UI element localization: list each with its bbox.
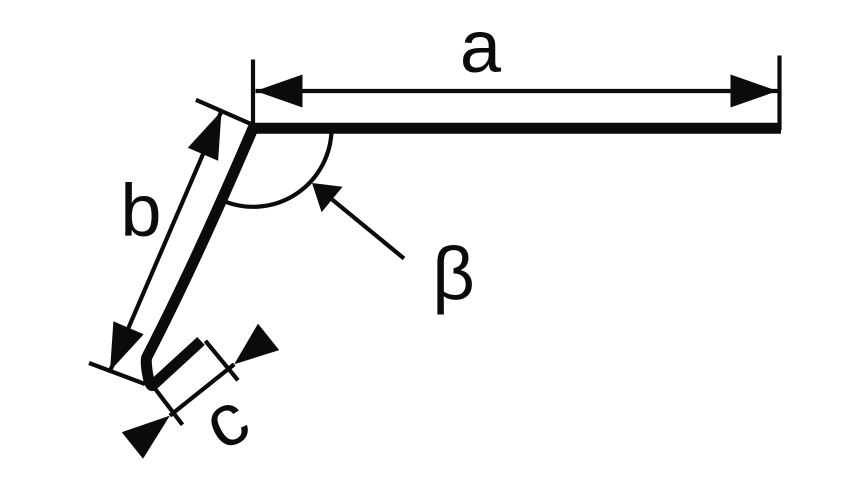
bent sheet-metal profile (flange a, leg b, hem c) bbox=[146, 128, 781, 385]
arrowhead c upper (outside, pointing down-left) bbox=[234, 324, 279, 365]
extension line right of dimension a bbox=[777, 56, 781, 131]
extension line left of dimension a bbox=[251, 60, 255, 125]
arrowhead b bottom bbox=[110, 321, 144, 371]
extension line bottom of dimension b bbox=[89, 363, 145, 384]
svg-text:b: b bbox=[120, 169, 161, 252]
angle arc beta bbox=[226, 131, 332, 207]
dimension line a bbox=[256, 89, 778, 93]
svg-text:c: c bbox=[190, 375, 262, 466]
extension line inner of dimension c (at bend) bbox=[153, 386, 183, 425]
arrowhead beta leader bbox=[312, 183, 343, 212]
extension line outer of dimension c (at hem tip) bbox=[205, 341, 238, 380]
svg-text:β: β bbox=[432, 232, 475, 315]
arrowhead a right bbox=[731, 75, 778, 108]
arrowhead b top bbox=[188, 111, 222, 161]
dimension line b bbox=[110, 111, 222, 371]
arrowhead a left bbox=[256, 75, 303, 108]
svg-text:a: a bbox=[460, 5, 502, 88]
extension line top of dimension b bbox=[196, 100, 252, 125]
leader line to angle beta bbox=[332, 200, 404, 259]
arrowhead c lower (outside, pointing up-right) bbox=[122, 416, 170, 459]
dimension line c bbox=[170, 364, 234, 415]
